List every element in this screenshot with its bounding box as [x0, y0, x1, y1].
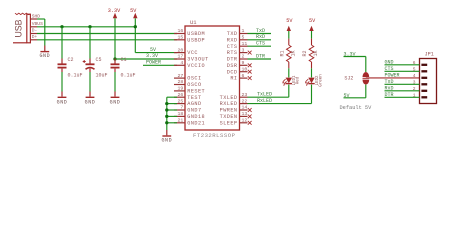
- pin 17 3V3OUT: [174, 58, 185, 60]
- wire TxLED: [248, 96, 289, 98]
- pin SHD: [30, 18, 37, 20]
- svg-text:0.1uF: 0.1uF: [121, 73, 136, 79]
- svg-text:4: 4: [413, 73, 416, 79]
- pin 22 RXLED: [240, 103, 248, 105]
- svg-text:TxLED: TxLED: [257, 92, 272, 98]
- svg-text:RI: RI: [230, 76, 237, 82]
- svg-text:DSR: DSR: [227, 63, 238, 69]
- svg-text:R2: R2: [302, 50, 308, 56]
- svg-text:7: 7: [180, 105, 183, 111]
- svg-text:USBDM: USBDM: [187, 31, 205, 37]
- svg-text:DTR: DTR: [256, 53, 265, 59]
- svg-text:DTR: DTR: [227, 57, 238, 63]
- svg-text:TXLED: TXLED: [220, 95, 238, 101]
- svg-text:3.3V: 3.3V: [146, 53, 158, 59]
- svg-text:3.3V: 3.3V: [108, 8, 121, 14]
- svg-text:PWREN: PWREN: [220, 108, 238, 114]
- capacitor C2: [61, 27, 63, 59]
- svg-text:6: 6: [242, 73, 245, 79]
- pin 7 GND7: [174, 109, 185, 111]
- svg-text:RxD: RxD: [385, 86, 394, 92]
- wire POWER red: [366, 77, 420, 79]
- svg-text:19: 19: [178, 86, 184, 92]
- wire net RxD: [248, 39, 272, 41]
- svg-text:GND18: GND18: [187, 114, 205, 120]
- svg-text:11: 11: [242, 41, 248, 47]
- svg-text:28: 28: [178, 79, 184, 85]
- svg-text:D-: D-: [32, 28, 38, 34]
- svg-text:13: 13: [242, 111, 248, 117]
- wire POWER to VCCIO: [143, 64, 177, 66]
- svg-text:TXD: TXD: [227, 31, 238, 37]
- pin 21 GND21: [174, 122, 185, 124]
- pin 18 GND18: [174, 115, 185, 117]
- svg-text:3V3OUT: 3V3OUT: [187, 57, 208, 63]
- svg-text:RXD: RXD: [227, 37, 238, 43]
- svg-text:27: 27: [178, 73, 184, 79]
- svg-text:5: 5: [242, 35, 245, 41]
- svg-text:U1: U1: [190, 19, 197, 26]
- svg-text:17: 17: [178, 54, 184, 60]
- wire 3.3V to 3V3OUT: [115, 58, 177, 60]
- ground: [40, 51, 49, 53]
- pin 23 TXLED: [240, 96, 248, 98]
- svg-text:1K: 1K: [290, 50, 296, 56]
- pin D-: [30, 33, 37, 35]
- svg-text:TXDEN: TXDEN: [220, 114, 238, 120]
- pin 25 AGND: [174, 103, 185, 105]
- pin 9 DSR: [240, 64, 248, 66]
- svg-text:9: 9: [242, 60, 245, 66]
- wire SHD to GND: [37, 18, 45, 20]
- svg-text:22: 22: [242, 98, 248, 104]
- JP1 pin 1 pad: [421, 96, 427, 98]
- wire 5V stem: [134, 18, 136, 52]
- JP1 pin 2 pad: [421, 90, 427, 92]
- ground C2: [58, 96, 67, 98]
- ground U1: [162, 135, 171, 137]
- svg-text:1: 1: [242, 28, 245, 34]
- pin 3 RTS: [240, 52, 248, 54]
- svg-text:RXLED: RXLED: [220, 101, 238, 107]
- capacitor C5: [89, 59, 91, 64]
- svg-text:CTS: CTS: [385, 66, 394, 72]
- svg-text:D+: D+: [32, 34, 38, 40]
- svg-text:GND: GND: [85, 99, 96, 105]
- pin 2 DTR: [240, 58, 248, 60]
- svg-text:0.1uF: 0.1uF: [68, 73, 83, 79]
- JP1 pin 5 pad: [421, 70, 427, 72]
- svg-text:C5: C5: [96, 57, 102, 63]
- junction VBUS-C2: [60, 25, 63, 28]
- svg-text:GND: GND: [39, 53, 50, 59]
- pin 4 VCCIO: [174, 64, 185, 66]
- wire D+ net: [37, 39, 177, 41]
- wire 5V to VCC: [135, 52, 177, 54]
- svg-text:RTS: RTS: [227, 50, 238, 56]
- pin VBUS: [30, 26, 37, 28]
- pin 28 OSCO: [174, 84, 185, 86]
- svg-text:25: 25: [178, 98, 184, 104]
- svg-text:TxD: TxD: [385, 79, 394, 85]
- svg-text:4: 4: [180, 60, 183, 66]
- JP1 pin 6 pad: [421, 64, 427, 66]
- svg-text:USB: USB: [13, 19, 23, 37]
- op IC U1 outline: [185, 26, 240, 130]
- svg-text:GND: GND: [161, 137, 172, 143]
- svg-text:5V: 5V: [286, 18, 293, 24]
- svg-text:POWER: POWER: [385, 73, 400, 79]
- pin 26 TEST: [174, 96, 185, 98]
- wire 3.3V stem: [114, 18, 116, 59]
- pin 19 RESET: [174, 90, 185, 92]
- svg-text:14: 14: [242, 105, 248, 111]
- pin 6 RI: [240, 77, 248, 79]
- wire TEST-GND rail: [167, 96, 177, 98]
- svg-text:VCCIO: VCCIO: [187, 63, 205, 69]
- svg-text:CTS: CTS: [256, 41, 265, 47]
- ground C1: [111, 96, 120, 98]
- wire GND pin k11: [167, 103, 177, 105]
- svg-text:3: 3: [242, 47, 245, 53]
- svg-text:RxD: RxD: [256, 34, 265, 40]
- pin 15 USBDP: [174, 39, 185, 41]
- junction VBUS-C5: [88, 25, 91, 28]
- svg-text:VCC: VCC: [187, 50, 198, 56]
- wire VBUS 5V rail: [37, 26, 135, 28]
- svg-text:18: 18: [178, 111, 184, 117]
- pin D+: [30, 39, 37, 41]
- JP1 pin 3 pad: [421, 83, 427, 85]
- svg-text:16: 16: [178, 28, 184, 34]
- svg-text:2: 2: [242, 54, 245, 60]
- wire net TxD JP1: [385, 83, 420, 85]
- svg-text:20: 20: [178, 47, 184, 53]
- svg-text:OSCO: OSCO: [187, 82, 201, 88]
- svg-text:POWER: POWER: [146, 60, 161, 66]
- pin 5 RXD: [240, 39, 248, 41]
- pin 10 DCD: [240, 71, 248, 73]
- svg-text:GND7: GND7: [187, 108, 201, 114]
- svg-text:RxLED: RxLED: [257, 98, 272, 104]
- svg-text:JP1: JP1: [425, 52, 434, 58]
- svg-text:SJ2: SJ2: [344, 75, 353, 81]
- wire net CTS JP1: [385, 70, 420, 72]
- svg-text:GND: GND: [385, 60, 394, 66]
- pin 14 PWREN: [240, 109, 248, 111]
- svg-text:OSCI: OSCI: [187, 76, 201, 82]
- ground C5: [86, 96, 95, 98]
- pin 12 SLEEP: [240, 122, 248, 124]
- pin 20 VCC: [174, 52, 185, 54]
- wire net GND JP1: [385, 64, 420, 66]
- pin 11 CTS: [240, 45, 248, 47]
- svg-text:15: 15: [178, 35, 184, 41]
- svg-text:Green: Green: [319, 74, 323, 87]
- USB connector X1: [27, 14, 31, 43]
- svg-text:Default 5V: Default 5V: [340, 105, 373, 111]
- solder jumper SJ2: [363, 72, 370, 77]
- svg-text:23: 23: [242, 92, 248, 98]
- capacitor C1: [114, 59, 116, 64]
- svg-text:10uF: 10uF: [96, 73, 108, 79]
- svg-text:R1: R1: [280, 50, 286, 56]
- ground lead U1: [166, 130, 168, 135]
- svg-text:5V: 5V: [309, 18, 316, 24]
- wire net CTS: [248, 45, 272, 47]
- svg-text:GND: GND: [57, 99, 68, 105]
- svg-text:DTR: DTR: [385, 92, 394, 98]
- svg-text:12: 12: [242, 118, 248, 124]
- wire net DTR: [248, 58, 272, 60]
- svg-text:1K: 1K: [313, 50, 319, 56]
- junction VBUS-5V: [134, 25, 137, 28]
- pin 27 OSCI: [174, 77, 185, 79]
- svg-text:5V: 5V: [130, 8, 137, 14]
- pin 1 TXD: [240, 33, 248, 35]
- connector JP1 outline: [420, 59, 437, 104]
- svg-text:AGND: AGND: [187, 101, 201, 107]
- svg-text:USBDP: USBDP: [187, 37, 205, 43]
- wire net DTR JP1: [385, 96, 420, 98]
- wire D- net: [37, 33, 177, 35]
- svg-text:DCD: DCD: [227, 69, 238, 75]
- svg-text:SLEEP: SLEEP: [220, 120, 238, 126]
- svg-text:10: 10: [242, 66, 248, 72]
- junction 3.3V-C1: [113, 57, 116, 60]
- svg-text:CTS: CTS: [227, 44, 238, 50]
- svg-text:Red: Red: [296, 76, 301, 84]
- svg-text:C2: C2: [68, 57, 74, 63]
- svg-text:5V: 5V: [344, 93, 350, 99]
- svg-text:GND: GND: [110, 99, 121, 105]
- svg-text:TEST: TEST: [187, 95, 201, 101]
- pin 16 USBDM: [174, 33, 185, 35]
- svg-text:FT232RLSSOP: FT232RLSSOP: [193, 132, 236, 139]
- wire net TxD: [248, 33, 272, 35]
- svg-text:21: 21: [178, 118, 184, 124]
- net label 5V SJ2: [365, 85, 367, 98]
- ground lead: [44, 46, 46, 52]
- svg-text:C1: C1: [121, 57, 127, 63]
- svg-text:GND21: GND21: [187, 120, 205, 126]
- svg-text:TxD: TxD: [256, 28, 265, 34]
- wire GND pin k13: [167, 115, 177, 117]
- wire GND pin k14: [167, 122, 177, 124]
- svg-text:RESET: RESET: [187, 89, 205, 95]
- JP1 pin 4 pad: [421, 77, 427, 79]
- wire RxLED: [248, 103, 312, 105]
- svg-text:26: 26: [178, 92, 184, 98]
- wire GND pin k12: [167, 109, 177, 111]
- wire net RxD JP1: [385, 90, 420, 92]
- pin 13 TXDEN: [240, 115, 248, 117]
